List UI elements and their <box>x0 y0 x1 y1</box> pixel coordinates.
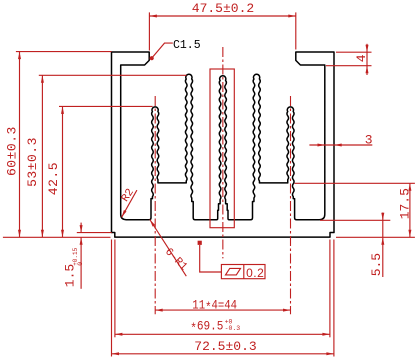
dim 47.5±0.2 right extension line <box>295 12 297 49</box>
centerline fin 1 <box>154 96 156 314</box>
dim 60±0.3 top extension line <box>16 51 112 53</box>
svg-text:42.5: 42.5 <box>46 162 61 195</box>
chamfer label C1.5 leader <box>153 43 173 57</box>
svg-text:1.5: 1.5 <box>63 264 78 287</box>
dim 1.5 dimension line <box>80 223 82 233</box>
svg-text:-0.3: -0.3 <box>225 325 241 332</box>
svg-text:47.5±0.2: 47.5±0.2 <box>192 1 254 16</box>
dim 17.5 extension line <box>295 182 415 184</box>
svg-text:17.5: 17.5 <box>397 188 412 219</box>
dim 47.5±0.2 dimension line <box>149 15 295 17</box>
flatness frame box <box>221 265 265 279</box>
svg-text:R2: R2 <box>120 187 137 205</box>
dim 72.5 extension lines <box>111 240 113 357</box>
dim 72.5 dimension line <box>112 353 334 355</box>
extension line body bottom right <box>336 236 415 238</box>
svg-text:4: 4 <box>354 54 369 62</box>
svg-text:60±0.3: 60±0.3 <box>5 126 20 176</box>
dim 17.5 dimension line <box>409 183 411 237</box>
dim 3 leader line <box>309 144 372 146</box>
flatness frame leader <box>200 245 222 272</box>
dim 4 extension lines <box>336 51 372 53</box>
svg-text:C1.5: C1.5 <box>173 39 201 52</box>
dim 60±0.3 dimension line <box>19 52 21 238</box>
svg-text:0: 0 <box>77 262 84 266</box>
dim 11*4=44 dimension line <box>155 309 290 311</box>
svg-text:6-R1: 6-R1 <box>162 246 189 273</box>
flatness symbol parallelogram <box>226 268 241 275</box>
dim 53±0.3 dimension line <box>41 75 43 237</box>
detail rectangle around center fin <box>210 69 234 228</box>
svg-text:*69.5: *69.5 <box>190 319 223 337</box>
dim 42.5 top extension line <box>59 105 153 107</box>
extension line body bottom left <box>3 236 111 238</box>
dim 5.5 dimension line <box>382 213 384 278</box>
svg-text:72.5±0.3: 72.5±0.3 <box>194 339 256 354</box>
fillet label R2 leader <box>122 190 137 217</box>
dim 47.5±0.2 left extension line <box>148 12 150 50</box>
dim 1.5 step extension line <box>77 232 112 234</box>
fillet label 6-R1 leader <box>150 220 187 277</box>
dim 5.5 extension line <box>320 219 390 221</box>
dim 4 dimension line <box>366 44 368 75</box>
dim 69.5 dimension line <box>115 333 330 335</box>
centerline fin 3 <box>222 47 224 258</box>
dim 42.5 dimension line <box>62 106 64 237</box>
svg-text:11*4=44: 11*4=44 <box>192 298 237 316</box>
dim 53±0.3 top extension line <box>39 74 187 76</box>
svg-text:53±0.3: 53±0.3 <box>25 137 40 187</box>
dim 69.5 extension lines <box>114 240 116 338</box>
svg-text:0.2: 0.2 <box>246 266 264 280</box>
svg-text:3: 3 <box>365 132 373 147</box>
heatsink body outline <box>112 52 335 237</box>
centerline fin 5 <box>290 96 292 314</box>
svg-text:5.5: 5.5 <box>369 253 384 276</box>
